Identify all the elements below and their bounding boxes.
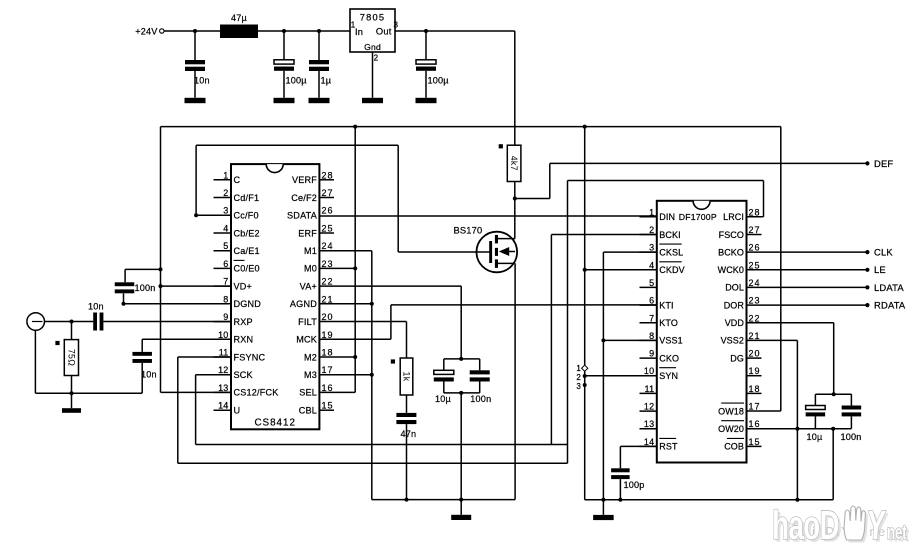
svg-text:100n: 100n <box>135 283 156 293</box>
svg-text:CKSL: CKSL <box>659 247 683 257</box>
svg-text:haoD: haoD <box>772 503 839 549</box>
svg-text:M2: M2 <box>304 352 317 362</box>
svg-text:ERF: ERF <box>298 228 317 238</box>
svg-text:Cd/F1: Cd/F1 <box>234 193 260 203</box>
svg-text:KTO: KTO <box>659 318 678 328</box>
svg-text:FSYNC: FSYNC <box>234 352 266 362</box>
svg-text:21: 21 <box>322 294 334 304</box>
svg-text:75Ω: 75Ω <box>67 349 77 366</box>
capacitor C7 10n on RXN <box>132 339 156 393</box>
wire DEF line <box>550 162 867 164</box>
svg-text:Ce/F2: Ce/F2 <box>291 193 317 203</box>
svg-text:C0/E0: C0/E0 <box>234 264 260 274</box>
node LDATA terminal <box>865 282 904 293</box>
ground under C2 <box>274 98 295 103</box>
svg-text:10n: 10n <box>194 76 210 86</box>
svg-text:BCKO: BCKO <box>718 247 744 257</box>
wire analog ground stem <box>460 500 462 515</box>
wire CS8412 pin12 SCK net <box>196 375 568 445</box>
svg-text:17: 17 <box>749 402 761 412</box>
wire FSYNC to LRCI riser <box>568 181 764 464</box>
svg-text:22: 22 <box>749 313 761 323</box>
wire CS8412 pin24 M1 ground column <box>319 251 373 500</box>
svg-text:10n: 10n <box>88 302 104 312</box>
wire 7805 Out to drain column <box>395 29 515 145</box>
svg-text:M3: M3 <box>304 370 317 380</box>
svg-text:KTI: KTI <box>659 300 673 310</box>
svg-text:2: 2 <box>649 225 654 235</box>
wire +24V rail to 7805 In <box>164 29 350 33</box>
svg-text:RDATA: RDATA <box>874 300 906 311</box>
svg-text:6: 6 <box>223 259 228 269</box>
svg-text:Out: Out <box>376 26 392 36</box>
wire CS8412 pin19 MCK to DF1700P pin6 KTI <box>319 305 656 339</box>
svg-text:3: 3 <box>576 382 581 391</box>
wire CS8412 pin10 RXN to C7 <box>142 338 231 340</box>
wire CS8412 pin3 Cc/F0 to gate net <box>194 145 491 252</box>
svg-text:10: 10 <box>218 330 228 340</box>
svg-text:12: 12 <box>644 402 654 412</box>
svg-text:10n: 10n <box>141 370 157 380</box>
wire CS8412 pin22 VA+ to filter caps <box>319 286 461 359</box>
resistor R1 75ohm <box>55 322 78 394</box>
svg-text:CS12/FCK: CS12/FCK <box>234 388 279 398</box>
wire CS8412 pin26 SDATA to DF1700P pin1 DIN <box>319 215 656 217</box>
svg-text:DF1700P: DF1700P <box>679 212 717 222</box>
ground under C3 <box>309 98 330 103</box>
svg-text:20: 20 <box>749 349 761 359</box>
svg-text:LRCI: LRCI <box>723 212 744 222</box>
capacitor C4 100u electrolytic <box>416 31 449 98</box>
wire VDD cap top bus <box>815 393 851 395</box>
wire DF1700P pin26 BCKO to CLK <box>747 251 867 253</box>
capacitor C11 100p on RST <box>611 446 657 501</box>
ground under C4 <box>416 98 437 103</box>
wire DF1700P pin24 DOL to LDATA <box>747 286 867 288</box>
wire drain node to DEF riser <box>513 163 550 238</box>
svg-text:RXP: RXP <box>234 317 253 327</box>
node RDATA terminal <box>865 300 906 311</box>
svg-text:LDATA: LDATA <box>874 282 904 293</box>
svg-text:7805: 7805 <box>360 13 385 23</box>
wire CS8412 pin18 M2 <box>319 356 355 358</box>
svg-text:OW18: OW18 <box>718 406 744 416</box>
wire CS8412 pin17 M3 <box>319 374 371 376</box>
svg-text:DOR: DOR <box>724 300 745 310</box>
wire digital ground bus <box>585 499 834 501</box>
svg-text:14: 14 <box>644 437 654 447</box>
wire DF1700P pin21 VSS2 ground column <box>747 340 800 501</box>
node link marker 3 <box>576 382 581 391</box>
capacitor C12 10u electrolytic <box>806 394 826 442</box>
svg-text:13: 13 <box>218 383 228 393</box>
wire net-N1 left vertical to VD+ and pin13 <box>159 127 163 393</box>
svg-text:Cb/E2: Cb/E2 <box>234 228 260 238</box>
capacitor C13 100n <box>841 394 862 442</box>
svg-text:DIN: DIN <box>659 212 675 222</box>
svg-text:11: 11 <box>219 348 229 358</box>
svg-text:18: 18 <box>322 348 334 358</box>
svg-text:VSS1: VSS1 <box>659 336 682 346</box>
svg-text:7: 7 <box>649 313 654 323</box>
svg-text:23: 23 <box>749 296 761 306</box>
wire coupling cap to CS8412 pin9 RXP <box>103 321 231 323</box>
svg-text:Ca/E1: Ca/E1 <box>234 246 260 256</box>
svg-text:3: 3 <box>649 243 654 253</box>
svg-text:100µ: 100µ <box>286 76 308 86</box>
svg-text:SEL: SEL <box>299 388 317 398</box>
svg-text:DEF: DEF <box>874 158 893 169</box>
svg-text:16: 16 <box>749 419 761 429</box>
svg-text:1: 1 <box>576 364 581 373</box>
svg-text:17: 17 <box>322 365 334 375</box>
svg-text:14: 14 <box>218 401 228 411</box>
svg-text:22: 22 <box>322 277 334 287</box>
svg-text:24: 24 <box>322 241 334 251</box>
wire VA+ cap bus <box>444 357 480 500</box>
capacitor C6 10n series coupling <box>88 302 104 331</box>
wire source to analog ground bus <box>372 263 515 501</box>
wire 7805 Gnd pin <box>372 52 374 98</box>
svg-text:CLK: CLK <box>874 247 893 258</box>
wire DF1700P pin10 SYN <box>585 375 657 377</box>
svg-text:BCKI: BCKI <box>659 230 680 240</box>
node DEF terminal <box>865 158 893 169</box>
svg-text:100n: 100n <box>841 432 862 442</box>
op-amp U1 CS8412 receiver <box>214 164 335 429</box>
svg-text:24: 24 <box>749 278 761 288</box>
svg-text:1k: 1k <box>402 372 412 382</box>
op-amp U2 DF1700P digital filter <box>640 201 762 463</box>
svg-text:8: 8 <box>649 331 654 341</box>
ground analog <box>451 515 471 520</box>
svg-text:RST: RST <box>659 442 678 452</box>
capacitor C10 100n <box>470 359 492 404</box>
capacitor C5 100n decoupling <box>115 269 161 305</box>
svg-text:100n: 100n <box>470 394 491 404</box>
svg-text:2: 2 <box>374 54 379 63</box>
svg-text:15: 15 <box>322 401 334 411</box>
resistor R3 4k7 <box>499 144 521 181</box>
ground input <box>62 408 81 413</box>
svg-text:9: 9 <box>649 349 654 359</box>
wire BCKI column to SCK net <box>551 235 656 445</box>
svg-text:FSCO: FSCO <box>719 230 744 240</box>
svg-text:25: 25 <box>322 224 334 234</box>
node CLK terminal <box>865 247 893 258</box>
wire net-N1 top horizontal <box>161 125 781 129</box>
wire CS8412 pin20 FILT to R2 <box>319 322 406 359</box>
svg-text:100p: 100p <box>624 480 645 490</box>
svg-text:19: 19 <box>749 366 761 376</box>
wire input to coupling cap <box>45 320 94 324</box>
svg-text:net: net <box>887 521 907 543</box>
svg-text:26: 26 <box>749 243 761 253</box>
svg-text:1µ: 1µ <box>321 76 332 86</box>
svg-text:Y: Y <box>865 503 887 549</box>
svg-text:6: 6 <box>649 296 654 306</box>
svg-text:OW20: OW20 <box>718 424 744 434</box>
svg-text:1: 1 <box>649 207 654 217</box>
wire CS8412 pin7 VD+ stub <box>161 285 232 287</box>
ground under C1 <box>185 98 206 103</box>
svg-text:SYN: SYN <box>659 371 678 381</box>
wire DF1700P pin17 OW18 to net-N1 <box>747 127 781 411</box>
inductor L1 47u <box>220 13 258 38</box>
wire input ground bus <box>35 330 142 408</box>
svg-text:5: 5 <box>649 278 654 288</box>
svg-text:12: 12 <box>218 365 228 375</box>
wire CS8412 pin23 M0 to net-N1 column <box>319 127 357 393</box>
svg-text:18: 18 <box>749 384 761 394</box>
wire CS8412 pin16 SEL <box>319 391 355 393</box>
svg-text:AGND: AGND <box>290 299 317 309</box>
node LE terminal <box>865 264 886 275</box>
svg-text:VD+: VD+ <box>234 281 253 291</box>
svg-text:10µ: 10µ <box>435 394 452 404</box>
svg-text:7: 7 <box>223 277 228 287</box>
node link marker 2 <box>576 373 581 382</box>
svg-text:BS170: BS170 <box>454 226 483 236</box>
svg-text:COB: COB <box>724 442 744 452</box>
svg-text:SCK: SCK <box>234 370 253 380</box>
svg-text:4k7: 4k7 <box>509 156 519 171</box>
svg-text:2: 2 <box>576 373 581 382</box>
svg-text:28: 28 <box>322 170 334 180</box>
transistor Q1 BS170 <box>454 226 518 273</box>
wire DF1700P pin16 OW20 to cap bottom bus <box>747 427 852 500</box>
node +24V input terminal <box>135 26 164 36</box>
svg-text:23: 23 <box>322 259 334 269</box>
svg-text:M1: M1 <box>304 246 317 256</box>
capacitor C9 10u electrolytic <box>434 359 454 404</box>
wire DF1700P pin22 VDD to caps <box>747 323 836 397</box>
svg-text:VA+: VA+ <box>300 281 317 291</box>
svg-text:26: 26 <box>322 206 334 216</box>
svg-text:CBL: CBL <box>299 406 317 416</box>
svg-text:VSS2: VSS2 <box>721 336 744 346</box>
svg-text:27: 27 <box>322 188 334 198</box>
svg-text:27: 27 <box>749 225 761 235</box>
svg-text:10: 10 <box>644 366 654 376</box>
svg-text:13: 13 <box>644 419 654 429</box>
svg-text:2: 2 <box>223 188 228 198</box>
svg-text:21: 21 <box>749 331 761 341</box>
svg-text:5: 5 <box>223 241 228 251</box>
svg-text:WCK0: WCK0 <box>718 265 744 275</box>
svg-text:25: 25 <box>749 260 761 270</box>
svg-text:9: 9 <box>223 312 228 322</box>
capacitor C8 47n <box>396 395 416 502</box>
svg-text:VDD: VDD <box>725 318 745 328</box>
svg-text:47n: 47n <box>401 429 417 439</box>
svg-text:In: In <box>355 27 363 37</box>
svg-text:11: 11 <box>645 384 655 394</box>
capacitor C1 10n <box>185 31 210 98</box>
wire DF1700P pin4 CKDV <box>585 269 657 271</box>
wire CS8412 pin13 CS12/FCK to net-N1 <box>161 391 232 393</box>
svg-text:4: 4 <box>223 224 228 234</box>
wire CS8412 pin21 AGND <box>319 303 371 305</box>
svg-text:CKO: CKO <box>659 353 679 363</box>
svg-text:U: U <box>234 406 241 416</box>
svg-text:Gnd: Gnd <box>364 42 381 52</box>
node link marker 1 <box>576 364 587 373</box>
ground digital <box>593 515 614 520</box>
svg-text:DGND: DGND <box>234 299 262 309</box>
svg-text:MCK: MCK <box>296 335 317 345</box>
svg-text:8: 8 <box>223 294 228 304</box>
svg-text:C: C <box>234 175 241 185</box>
svg-text:DOL: DOL <box>725 283 744 293</box>
svg-text:CKDV: CKDV <box>659 265 684 275</box>
svg-text:M0: M0 <box>304 264 317 274</box>
svg-text:19: 19 <box>322 330 334 340</box>
svg-text:SDATA: SDATA <box>287 211 318 221</box>
svg-text:LE: LE <box>874 264 886 275</box>
svg-text:CS8412: CS8412 <box>254 417 295 428</box>
svg-text:10µ: 10µ <box>807 432 824 442</box>
wire CS8412 pin11 FSYNC net <box>178 357 568 463</box>
svg-text:4: 4 <box>649 260 654 270</box>
svg-text:FILT: FILT <box>298 317 317 327</box>
svg-text:3: 3 <box>394 21 399 30</box>
wire CS8412 pin8 DGND to C5 <box>124 303 232 305</box>
svg-text:28: 28 <box>749 207 761 217</box>
connector J1 coax input <box>27 313 45 331</box>
svg-text:RXN: RXN <box>234 335 254 345</box>
wire DF1700P pin25 WCK0 to LE <box>747 269 867 271</box>
svg-text:3: 3 <box>223 206 228 216</box>
regulator U3 7805 <box>350 9 399 63</box>
wire net-N1 center vertical <box>583 127 587 500</box>
svg-text:1: 1 <box>223 170 228 180</box>
svg-text:20: 20 <box>322 312 334 322</box>
svg-text:VERF: VERF <box>292 175 317 185</box>
svg-text:Cc/F0: Cc/F0 <box>234 211 259 221</box>
svg-text:16: 16 <box>322 383 334 393</box>
wire DF1700P pin3 CKSL to VSS1 ground <box>601 252 656 515</box>
svg-text:47µ: 47µ <box>231 13 248 23</box>
watermark logo <box>772 503 909 551</box>
svg-text:DG: DG <box>730 353 744 363</box>
svg-text:+24V: +24V <box>135 26 158 36</box>
ground under 7805 <box>362 98 383 103</box>
resistor R2 1k <box>391 358 413 395</box>
capacitor C3 1u <box>309 31 332 98</box>
svg-text:15: 15 <box>749 437 761 447</box>
svg-text:100µ: 100µ <box>428 76 450 86</box>
capacitor C2 100u electrolytic <box>274 31 307 98</box>
wire DF1700P pin23 DOR to RDATA <box>747 304 867 306</box>
